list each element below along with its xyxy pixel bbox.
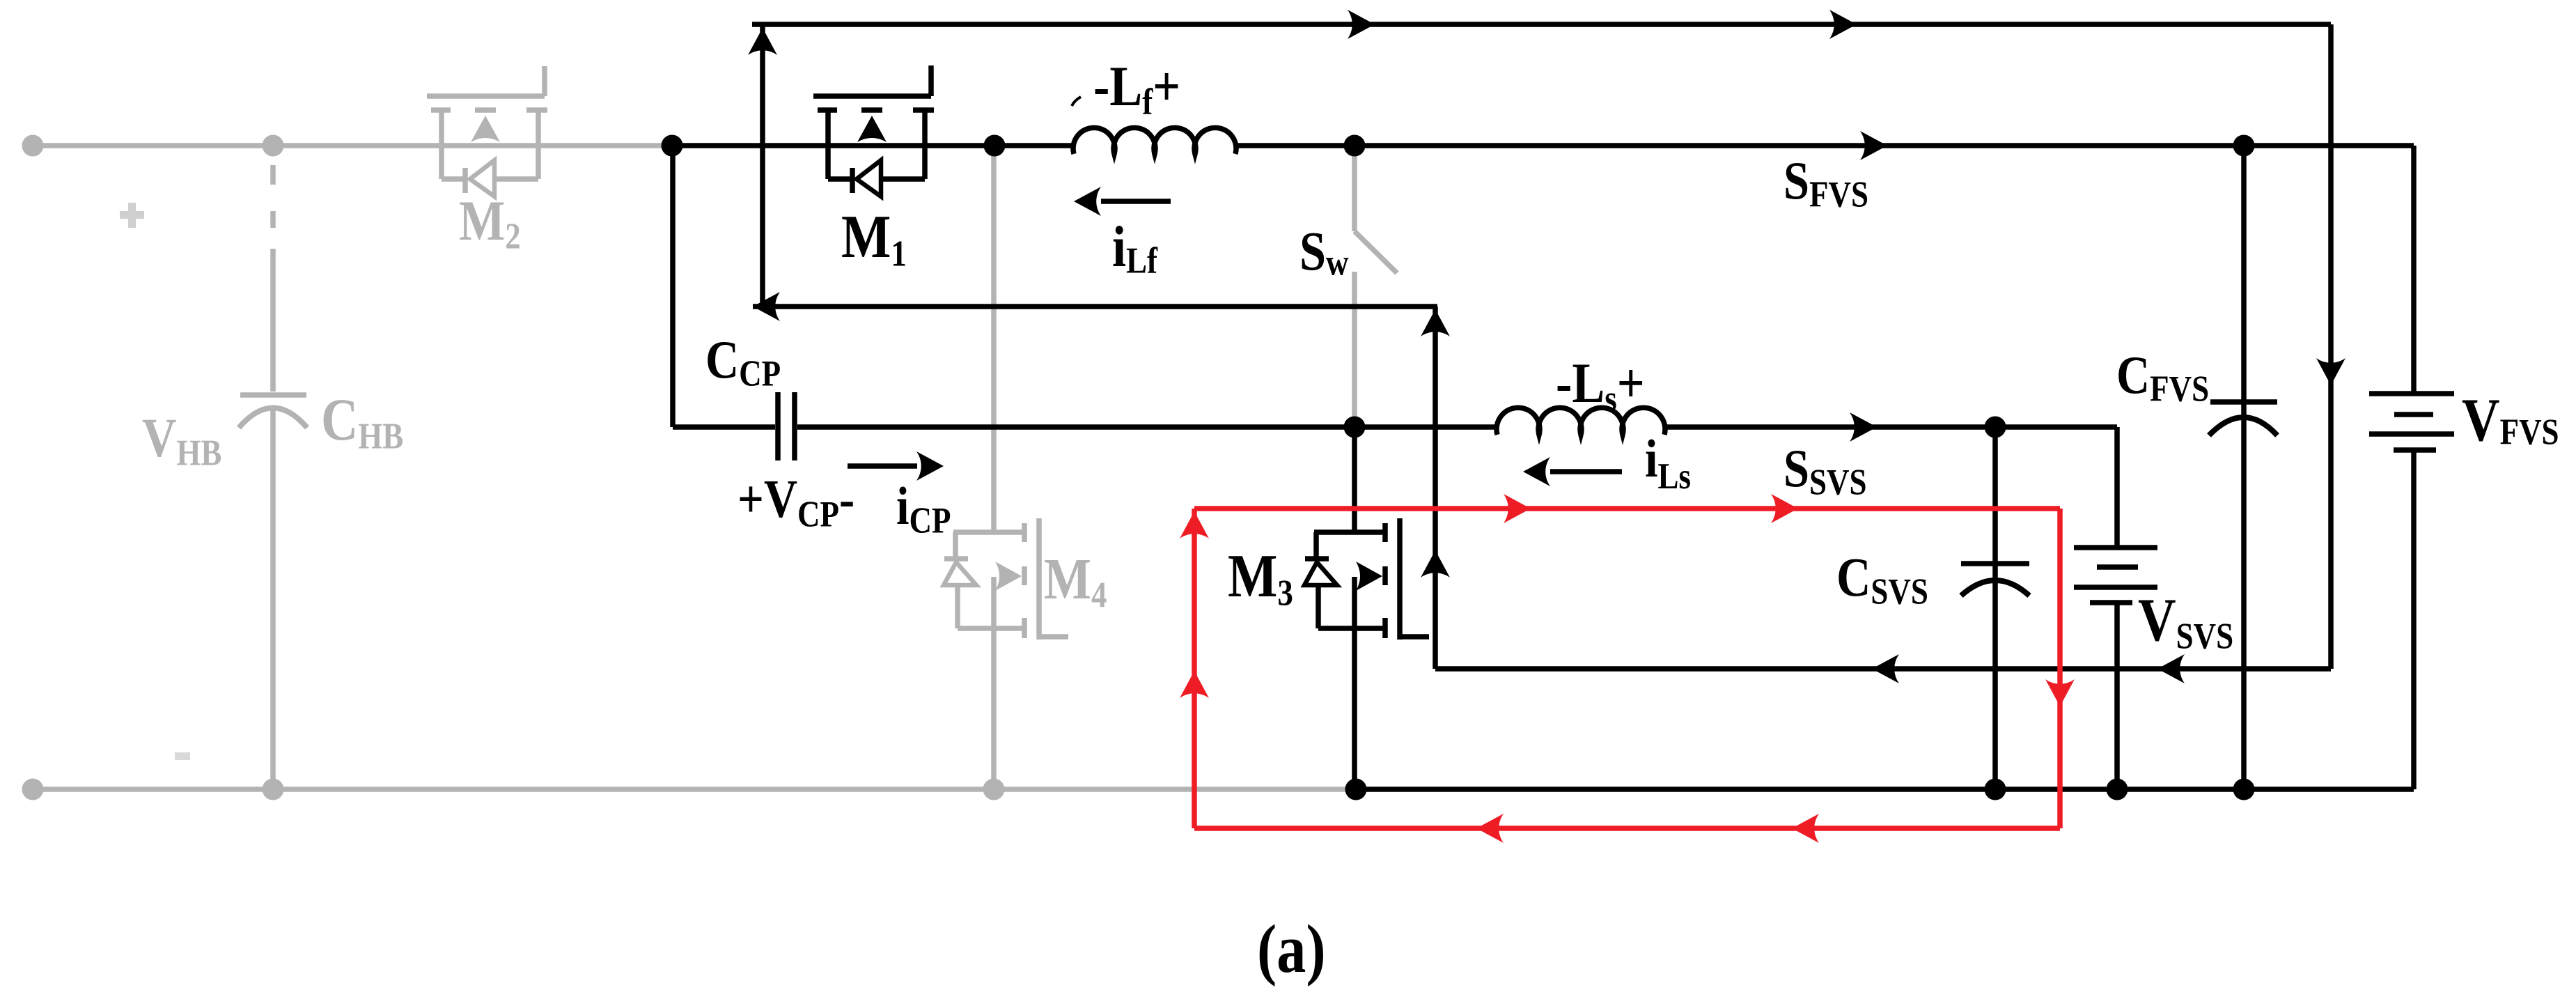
node bus C_FVS [2233,779,2255,800]
stray mark near Lf [1072,97,1081,106]
wire gray input rail top [28,143,672,148]
wire C_HB stem [270,249,276,392]
arrowhead red bottom 1 [1476,814,1504,843]
arrowhead M3 riser up mid [1421,550,1450,578]
wire red loop bottom [1194,826,2060,831]
node S_SVS C_SVS [1985,417,2006,438]
arrowhead M1 riser up [748,28,777,55]
wire red loop top [1194,506,2060,511]
wire red loop left [1192,509,1197,828]
arrowhead return 1 [1872,654,1899,683]
capacitor C_SVS [1961,564,2029,596]
node gray input - [22,779,44,800]
arrowhead return 2 [2157,654,2185,683]
label minus [175,752,190,760]
wire C_HB dashed link upper [270,165,276,228]
arrow i_CP [848,463,917,469]
arrow i_Ls [1550,469,1622,474]
battery V_FVS [2369,146,2454,789]
arrowhead i_CP [916,451,944,481]
arrowhead S_FVS [1860,131,1887,160]
node gray C_HB top [263,135,284,157]
wire C_FVS branch [2241,146,2247,789]
node S_w bottom [1344,417,1366,438]
wire C_SVS branch [1992,427,1998,789]
wire right drop from top bus [2328,24,2334,669]
capacitor C_FVS [2209,402,2277,435]
arrowhead S_SVS [1850,412,1877,442]
wire S_SVS corner down to V_SVS [2114,427,2120,545]
wire red loop right [2057,509,2063,828]
wire top bus [752,22,2331,27]
wire return mid [1435,666,2331,672]
transistor M3 [1304,427,1429,789]
label plus [120,203,144,228]
arrowhead top bus 2 [1829,10,1857,39]
wire S_SVS [1664,424,2117,430]
svg-text:(a): (a) [1257,911,1326,987]
capacitor C_CP [778,392,795,460]
wire M3 riser [1433,307,1438,669]
node gray C_HB bottom [263,779,284,800]
arrowhead i_Ls [1523,457,1550,486]
wire gray bottom bus [28,787,1356,792]
switch S_w [1355,148,1397,426]
wire node A down [670,146,676,427]
wire feedback to M1 [753,304,1437,309]
node bus V_SVS [2107,779,2128,800]
node main rail C [1344,135,1366,157]
transistor M4 [944,146,1068,789]
arrowhead M3 riser up top [1421,309,1450,336]
node gray input + [22,135,44,157]
capacitor C_HB [239,395,307,789]
arrowhead red right down [2045,679,2075,706]
transistor M1 [813,65,934,196]
node bus C_SVS [1985,779,2006,800]
node S_FVS C_FVS [2233,135,2255,157]
wire main rail S_FVS [1235,143,2414,148]
arrowhead right drop down [2316,358,2345,385]
arrowhead red bottom 2 [1792,814,1819,843]
wire C_CP left [673,424,775,430]
node main rail A [662,135,683,157]
inductor Lf [1073,127,1236,154]
arrowhead red left up 2 [1180,671,1209,698]
svg-text:-Ls+: -Ls+ [1556,352,1645,419]
arrow i_Lf [1101,199,1171,204]
inductor Ls [1497,408,1665,435]
node bus M3 [1345,779,1367,800]
arrowhead red left up 1 [1180,511,1209,539]
arrowhead red top 1 [1504,494,1531,523]
transistor M2 [427,66,547,196]
arrowhead feedback left [753,292,780,321]
wire main rail left [672,143,1074,148]
node gray M4 bottom [983,779,1005,800]
wire bottom bus black [1356,787,2414,792]
wire C_CP to Ls [797,424,1497,430]
arrowhead red top 2 [1771,494,1798,523]
arrowhead i_Lf [1074,187,1101,216]
wire M1 top riser [760,24,765,307]
node main rail B [984,135,1006,157]
arrowhead top bus 1 [1348,10,1375,39]
svg-text:-Lf+: -Lf+ [1093,55,1180,122]
battery V_SVS [2074,548,2157,789]
